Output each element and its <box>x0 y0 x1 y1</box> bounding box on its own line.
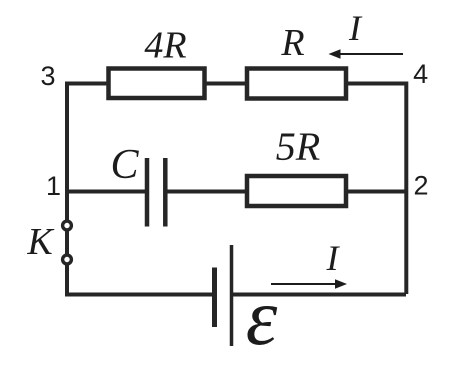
svg-text:5R: 5R <box>276 124 320 169</box>
svg-text:I: I <box>348 8 363 48</box>
svg-text:R: R <box>280 22 304 64</box>
svg-text:3: 3 <box>40 61 55 91</box>
svg-text:I: I <box>326 238 341 278</box>
svg-text:1: 1 <box>46 171 61 201</box>
svg-text:K: K <box>26 221 54 263</box>
svg-text:2: 2 <box>413 171 428 201</box>
svg-text:4: 4 <box>413 59 428 89</box>
svg-text:4R: 4R <box>144 25 186 67</box>
svg-text:ε: ε <box>246 274 278 362</box>
svg-text:C: C <box>110 142 139 188</box>
